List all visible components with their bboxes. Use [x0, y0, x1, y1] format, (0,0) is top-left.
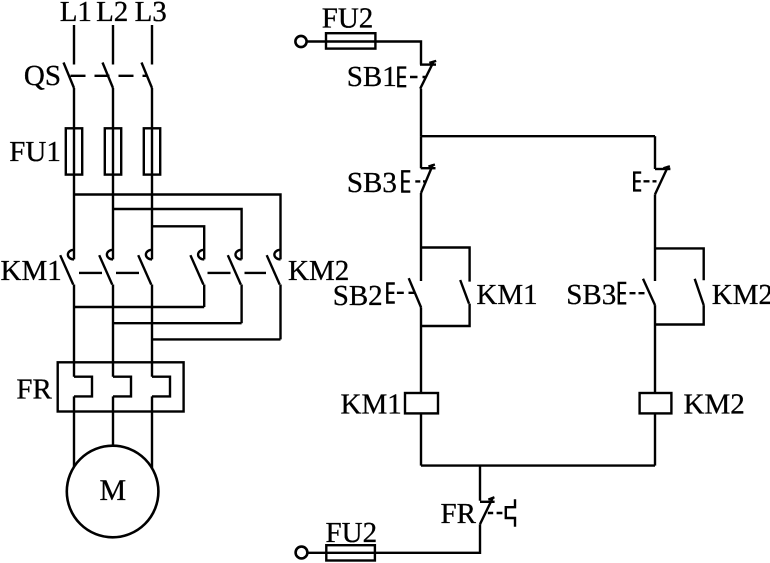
- svg-text:FR: FR: [441, 498, 477, 530]
- svg-text:KM2: KM2: [712, 279, 770, 311]
- wire FU1 pole3 to KM1 contact 3: [151, 128, 153, 259]
- wire feed L2 to KM2 contact 2: [113, 209, 242, 259]
- FR heater actuator: [506, 499, 515, 527]
- svg-text:L1: L1: [60, 0, 92, 28]
- svg-text:SB2: SB2: [333, 280, 383, 312]
- SB2 NO blade: [409, 278, 421, 307]
- switch QS pole 3 blade: [142, 63, 153, 89]
- KM1 main contact 3 blade: [138, 255, 151, 284]
- SB3 NC top bar: [421, 167, 436, 169]
- SB1 linkage dashes: [410, 76, 427, 78]
- wire feed L1 to KM2 contact 3: [74, 195, 281, 260]
- fuse FU1 pole 2: [105, 128, 121, 174]
- svg-text:QS: QS: [24, 60, 61, 92]
- wire FR to FU2 bottom: [307, 524, 480, 553]
- SB1 NC top bar: [420, 63, 436, 65]
- wire QS1 to FU1: [73, 88, 75, 128]
- wire output cross 2: [113, 322, 242, 324]
- wire L3 drop: [151, 25, 153, 65]
- wire feed L3 to KM2 contact 1: [152, 226, 204, 259]
- svg-text:FU1: FU1: [9, 136, 61, 168]
- wire SB3 NO to coil KM2: [654, 305, 656, 393]
- wire KM1 aux branch top: [421, 248, 470, 282]
- interlock NC top bar: [655, 168, 670, 170]
- svg-text:SB3: SB3: [347, 167, 397, 199]
- wire KM1 aux branch bottom: [421, 304, 470, 326]
- SB3 NC linkage dashes: [415, 180, 426, 182]
- svg-text:SB1: SB1: [347, 61, 397, 93]
- KM2 main contact 1 blade: [190, 255, 203, 284]
- KM2 main linkage dashed: [208, 272, 267, 274]
- coil KM1: [405, 393, 438, 413]
- wire KM1 contact3 down: [151, 285, 153, 377]
- switch QS pole 2 blade: [103, 63, 114, 89]
- wire FR2 to motor: [112, 396, 114, 449]
- KM2 main contact 2 hook: [235, 250, 241, 260]
- FR linkage dashes: [488, 512, 503, 514]
- KM2 main contact 3 hook: [274, 250, 280, 260]
- SB3 NO linkage dashes: [630, 292, 645, 294]
- svg-text:FR: FR: [16, 374, 52, 406]
- wire FU1 pole1 to KM1 contact 1: [73, 128, 75, 259]
- SB3 NO actuator E head: [619, 283, 627, 303]
- wire QS2 to FU1: [112, 88, 114, 128]
- wire split rail: [421, 135, 655, 137]
- SB2 actuator E head: [387, 284, 395, 303]
- wire SB3 to SB2: [420, 193, 422, 281]
- SB1 actuator E head: [398, 68, 406, 87]
- wire SB1 to split: [420, 89, 422, 137]
- interlock NC blade tick: [663, 166, 670, 168]
- fuse FU1 pole 1: [66, 128, 82, 174]
- interlock NC actuator E head: [634, 173, 641, 191]
- svg-text:KM1: KM1: [476, 279, 537, 311]
- wire output cross 1: [74, 306, 204, 308]
- wire KM1 contact1 down: [73, 285, 75, 377]
- wire KM2 aux branch bottom: [655, 305, 704, 324]
- FR heater element 1: [74, 377, 92, 397]
- motor M circle: [67, 446, 159, 538]
- FR heater element 3: [152, 377, 170, 397]
- SB3 NO blade: [643, 279, 655, 305]
- wire KM2 contact3 down: [279, 285, 281, 340]
- svg-text:M: M: [99, 474, 126, 507]
- wire QS3 to FU1: [151, 88, 153, 128]
- KM1 main contact 2 blade: [99, 255, 112, 284]
- SB1 NC blade: [420, 62, 433, 89]
- KM2 main contact 3 blade: [267, 255, 280, 284]
- svg-text:KM1: KM1: [341, 389, 402, 421]
- wire L1 drop: [73, 25, 75, 65]
- interlock NC blade: [655, 166, 668, 194]
- wire L2 drop: [112, 25, 114, 65]
- wire coil KM1 to rail: [420, 413, 422, 465]
- interlock NC linkage dashes: [644, 180, 657, 182]
- KM1 main contact 3 hook: [146, 250, 152, 260]
- FR NC blade: [480, 497, 493, 524]
- wire FR1 to motor: [73, 396, 75, 470]
- wire bottom rail: [421, 464, 655, 466]
- svg-text:SB3: SB3: [566, 279, 616, 311]
- SB1 NC blade tick: [429, 61, 436, 63]
- FR NC blade tick: [488, 497, 494, 499]
- wire KM2 aux branch top: [655, 248, 704, 280]
- wire KM1 contact2 down: [112, 285, 114, 377]
- SB3 NC blade: [421, 164, 433, 193]
- coil KM2: [640, 393, 672, 413]
- FR NC top bar: [480, 501, 495, 503]
- svg-text:L3: L3: [135, 0, 167, 28]
- svg-text:L2: L2: [96, 0, 128, 28]
- wire KM2 contact1 down: [203, 285, 205, 308]
- terminal circle bottom: [296, 547, 308, 559]
- SB3 NC blade tick: [428, 165, 435, 167]
- wire output cross 3: [152, 338, 281, 340]
- fuse FU2 bottom body: [326, 545, 375, 560]
- KM1 main contact 1 hook: [68, 250, 74, 260]
- terminal circle top: [295, 36, 306, 47]
- contact KM1 aux blade: [460, 280, 469, 304]
- wire rail to FR contact: [479, 466, 481, 501]
- svg-text:KM1: KM1: [1, 255, 62, 287]
- wire SB2 to coil KM1: [420, 308, 422, 394]
- thermal relay FR box: [58, 362, 184, 411]
- KM1 main contact 1 blade: [60, 255, 73, 284]
- KM1 main linkage dashed: [79, 272, 140, 274]
- wire left branch to SB3: [420, 136, 422, 168]
- KM2 main contact 2 blade: [228, 255, 241, 284]
- fuse FU2 top body: [326, 33, 375, 48]
- SB2 linkage dashes: [397, 292, 415, 294]
- wire FR3 to motor: [151, 396, 153, 470]
- wire KM2 contact2 down: [240, 285, 242, 324]
- switch QS linkage dashed: [71, 75, 147, 77]
- wire terminal to SB1: [307, 42, 421, 65]
- SB3 NC actuator E head: [402, 171, 410, 191]
- KM1 main contact 2 hook: [107, 250, 113, 260]
- contact KM2 aux blade: [695, 279, 704, 305]
- svg-text:FU2: FU2: [322, 3, 374, 35]
- wire interlock to SB3 NO: [654, 194, 656, 281]
- svg-text:KM2: KM2: [684, 389, 745, 421]
- fuse FU1 pole 3: [144, 128, 160, 174]
- switch QS pole 1 blade: [64, 63, 75, 89]
- wire FU1 pole2 to KM1 contact 2: [112, 128, 114, 259]
- wire coil KM2 to rail: [654, 413, 656, 465]
- FR heater element 2: [113, 377, 131, 397]
- wire right branch to NC interlock: [654, 136, 656, 169]
- KM2 main contact 1 hook: [198, 250, 204, 260]
